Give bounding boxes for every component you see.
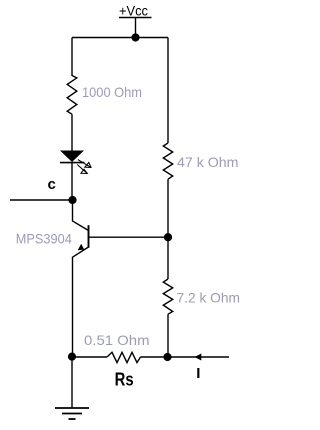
svg-text:I: I [196, 365, 200, 382]
svg-text:MPS3904: MPS3904 [16, 230, 72, 246]
svg-text:c: c [48, 176, 56, 193]
svg-text:0.51 Ohm: 0.51 Ohm [84, 332, 150, 348]
svg-text:Rs: Rs [115, 370, 134, 390]
svg-text:7.2 k Ohm: 7.2 k Ohm [177, 290, 241, 306]
svg-text:+Vcc: +Vcc [119, 3, 148, 18]
svg-text:47 k Ohm: 47 k Ohm [177, 154, 239, 170]
svg-text:1000 Ohm: 1000 Ohm [82, 84, 142, 100]
